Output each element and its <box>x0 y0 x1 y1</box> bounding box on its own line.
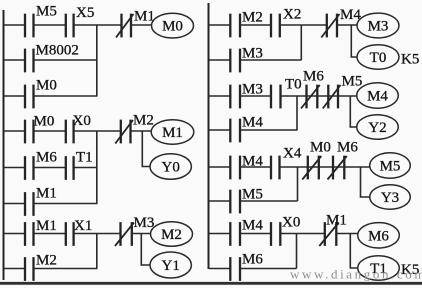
junction vertical node B <box>96 131 98 204</box>
wire <box>4 233 24 235</box>
wire <box>34 95 98 97</box>
contact M1 <box>25 218 57 246</box>
svg-text:M5: M5 <box>380 159 401 175</box>
coil M2 <box>151 222 193 247</box>
contact M8002 <box>25 43 79 73</box>
wire <box>337 233 358 235</box>
wire <box>281 24 327 26</box>
wire <box>209 59 230 61</box>
coil M3 <box>357 13 399 38</box>
svg-text:M4: M4 <box>242 115 263 131</box>
NC contact M6 <box>328 140 359 180</box>
contact X5 <box>66 5 95 37</box>
coil T0 <box>357 45 399 69</box>
NC contact M5 <box>323 74 363 109</box>
wire <box>241 166 271 168</box>
svg-text:M6: M6 <box>368 228 389 244</box>
contact M5 <box>25 4 57 38</box>
contact T1 <box>66 150 93 180</box>
svg-text:M2: M2 <box>242 10 263 26</box>
svg-text:M5: M5 <box>342 74 363 90</box>
wire <box>241 95 271 97</box>
svg-text:Y0: Y0 <box>162 160 180 176</box>
svg-text:X0: X0 <box>282 215 300 231</box>
wire <box>241 268 297 270</box>
contact M2 <box>230 10 263 38</box>
wire <box>133 233 151 235</box>
contact M0 <box>25 114 54 144</box>
svg-text:T0: T0 <box>370 50 387 66</box>
junction vertical node E <box>296 96 298 130</box>
junction vertical node D <box>300 25 302 60</box>
svg-text:T1: T1 <box>76 150 93 166</box>
wire <box>241 200 298 202</box>
wire <box>209 24 230 26</box>
junction vertical node F <box>297 167 299 201</box>
wire <box>4 268 24 270</box>
svg-text:Y3: Y3 <box>381 190 399 206</box>
contact M3 <box>230 82 263 109</box>
svg-text:M1: M1 <box>36 186 57 202</box>
contact M4 <box>230 115 263 143</box>
contact M3 <box>230 46 263 73</box>
svg-text:X1: X1 <box>74 218 92 234</box>
contact T0 <box>271 77 302 109</box>
wire <box>4 95 24 97</box>
svg-text:M6: M6 <box>36 150 57 166</box>
svg-text:X2: X2 <box>283 7 301 23</box>
wire branch to Y0 <box>142 131 150 167</box>
wire <box>74 233 120 235</box>
contact X0 <box>271 215 300 246</box>
wire branch to Y3 <box>361 167 370 197</box>
svg-text:M5: M5 <box>242 187 263 203</box>
wire branch to Y2 <box>350 96 356 127</box>
wire <box>34 268 98 270</box>
wire <box>4 59 24 61</box>
svg-text:M3: M3 <box>242 46 263 62</box>
coil M1 <box>151 120 194 144</box>
svg-text:M8002: M8002 <box>36 43 79 59</box>
wire <box>34 233 65 235</box>
coil Y2 <box>357 115 399 139</box>
bottom border line <box>0 282 422 285</box>
NC contact M1 <box>319 213 347 247</box>
junction vertical node G <box>296 234 298 269</box>
wire <box>4 130 24 132</box>
wire <box>281 233 324 235</box>
junction vertical node C <box>96 234 98 269</box>
svg-text:M2: M2 <box>133 113 154 129</box>
right power rail <box>208 3 210 269</box>
svg-text:Y1: Y1 <box>162 258 180 274</box>
svg-text:M0: M0 <box>34 114 55 130</box>
coil Y0 <box>150 154 191 180</box>
contact M4 <box>230 154 263 180</box>
svg-text:M6: M6 <box>242 252 263 268</box>
contact M6 <box>25 150 57 180</box>
svg-text:M3: M3 <box>242 82 263 98</box>
coil Y3 <box>370 185 411 209</box>
wire <box>241 59 302 61</box>
wire <box>74 167 98 169</box>
coil M0 <box>152 13 194 38</box>
wire <box>74 24 121 26</box>
contact M2 <box>25 253 57 281</box>
NC contact M6 <box>301 69 324 109</box>
wire branch to Y1 <box>141 234 150 266</box>
wire <box>34 203 98 205</box>
svg-text:M2: M2 <box>161 227 182 243</box>
contact M5 <box>230 187 263 214</box>
wire <box>338 24 358 26</box>
wire <box>209 95 230 97</box>
contact X4 <box>271 146 302 180</box>
coil Y1 <box>150 252 191 278</box>
wire <box>4 24 24 26</box>
left power rail <box>3 10 5 280</box>
svg-text:M4: M4 <box>242 218 263 234</box>
svg-text:M1: M1 <box>326 213 347 229</box>
svg-text:M0: M0 <box>310 140 331 156</box>
wire <box>132 24 152 26</box>
wire <box>4 203 24 205</box>
coil M5 <box>370 153 411 178</box>
NC contact M3 <box>115 215 154 246</box>
svg-text:M5: M5 <box>36 4 57 20</box>
svg-text:X5: X5 <box>76 5 94 21</box>
wire <box>209 166 230 168</box>
coil T1 <box>358 256 400 280</box>
svg-text:M2: M2 <box>36 253 57 269</box>
svg-text:M6: M6 <box>337 140 358 156</box>
wire <box>34 130 65 132</box>
wire <box>34 59 98 61</box>
wire branch to T0 <box>351 25 357 57</box>
contact X2 <box>271 7 301 38</box>
svg-text:M3: M3 <box>134 215 155 231</box>
svg-text:M3: M3 <box>368 19 389 35</box>
coil M4 <box>357 83 399 108</box>
junction vertical node A <box>96 25 98 96</box>
coil M6 <box>358 223 400 248</box>
contact M1 <box>25 186 57 216</box>
NC contact M0 <box>302 140 331 180</box>
svg-text:M4: M4 <box>367 89 388 105</box>
NC contact M2 <box>115 113 154 144</box>
svg-text:X4: X4 <box>283 146 302 162</box>
wire <box>34 24 65 26</box>
contact M0 <box>25 78 57 109</box>
svg-text:X0: X0 <box>73 113 91 129</box>
wire <box>241 233 271 235</box>
wire <box>209 129 230 131</box>
wire <box>241 24 271 26</box>
NC contact M4 <box>321 7 361 38</box>
wire branch to T1 <box>350 234 357 269</box>
svg-text:M6: M6 <box>303 69 324 85</box>
contact X1 <box>66 218 93 246</box>
svg-text:T0: T0 <box>285 77 302 93</box>
wire <box>209 233 230 235</box>
svg-text:www.diangon.com: www.diangon.com <box>290 267 422 282</box>
contact X0 <box>66 113 91 143</box>
contact M4 <box>230 218 263 246</box>
wire <box>209 200 230 202</box>
wire <box>281 166 371 168</box>
wire <box>4 167 24 169</box>
wire <box>74 130 120 132</box>
NC contact M1 <box>116 9 155 38</box>
wire <box>132 130 153 132</box>
wire <box>241 129 298 131</box>
wire <box>34 167 65 169</box>
svg-text:Y2: Y2 <box>368 120 386 136</box>
svg-text:M0: M0 <box>162 19 183 35</box>
svg-text:M0: M0 <box>36 78 57 94</box>
svg-text:M1: M1 <box>162 125 183 141</box>
svg-text:M1: M1 <box>36 218 57 234</box>
svg-text:K5: K5 <box>401 52 419 68</box>
wire <box>209 268 230 270</box>
wire <box>282 95 358 97</box>
contact M6 <box>230 252 263 281</box>
